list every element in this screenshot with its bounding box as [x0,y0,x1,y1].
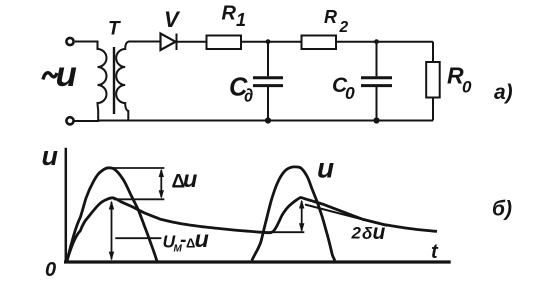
pulse 2 curve [252,167,335,261]
U_M arrow (double headed vertical) [109,201,114,261]
transformer T primary winding [75,42,107,122]
svg-text:u: u [183,166,197,192]
wire R0 to rail [432,98,434,121]
svg-text:R: R [222,3,237,25]
svg-text:0: 0 [462,77,472,96]
transformer T secondary winding [116,42,160,121]
bottom rail wire [98,120,433,122]
smoothed output curve [67,198,437,261]
label R0 [447,63,472,97]
pulse 1 curve [67,168,157,261]
label 2 delta u [351,221,386,244]
svg-text:u: u [56,55,77,94]
node bottom Cd [265,117,271,123]
2-delta-u double arrow [299,200,304,233]
wire diode to R1 [177,41,207,43]
valley level line [261,231,305,233]
svg-text:1: 1 [236,10,246,30]
node top Cd [266,39,271,44]
wire R1 to R2 [241,41,302,43]
node bottom C0 [373,117,379,123]
delta-u bracket top line [112,167,165,169]
svg-text:T: T [108,19,121,40]
capacitor C0 [361,76,392,79]
resistor R1 [207,36,242,50]
svg-text:R: R [324,7,337,27]
node top C0 [374,39,379,44]
svg-text:V: V [164,7,181,32]
svg-text:2: 2 [339,19,349,36]
wire node to Cd [267,42,269,77]
resistor R0 [426,62,440,98]
wire R2 to R0 corner [336,41,433,43]
diode V [161,34,176,51]
svg-text:∂: ∂ [244,84,253,105]
delta-u double arrow [159,169,164,199]
svg-text:б): б) [492,198,512,221]
terminal top-left [66,38,73,45]
svg-text:0: 0 [45,259,56,281]
terminal bottom-left [66,117,73,124]
svg-text:u: u [317,153,334,184]
svg-text:0: 0 [345,83,355,103]
wire corner down to R0 [432,42,434,62]
svg-text:2: 2 [351,223,362,242]
axis u (vertical) [65,148,68,263]
U_M leader line [115,237,161,239]
label delta u [172,166,198,193]
svg-text:δ: δ [362,224,373,243]
label R2 [324,7,349,36]
delta-u bracket bottom line [113,198,164,200]
label R1 [222,3,247,31]
label U_M - delta u [163,226,209,255]
diode cathode bar [176,34,178,51]
svg-text:а): а) [494,81,513,104]
resistor R2 [302,36,337,50]
wire node to C0 [376,42,378,77]
2-delta-u leader line [305,205,387,226]
label Cd [229,74,253,106]
svg-text:u: u [42,141,59,171]
svg-text:M: M [174,244,183,255]
label ~u [43,73,57,80]
wire Cd to rail [267,87,269,121]
svg-text:u: u [373,221,386,244]
svg-text:u: u [195,226,209,252]
label C0 [332,74,355,103]
capacitor Cd [253,76,283,79]
transformer core [113,47,115,114]
wire C0 to rail [376,87,378,121]
axis t (horizontal) [64,260,451,263]
svg-text:t: t [431,241,439,263]
